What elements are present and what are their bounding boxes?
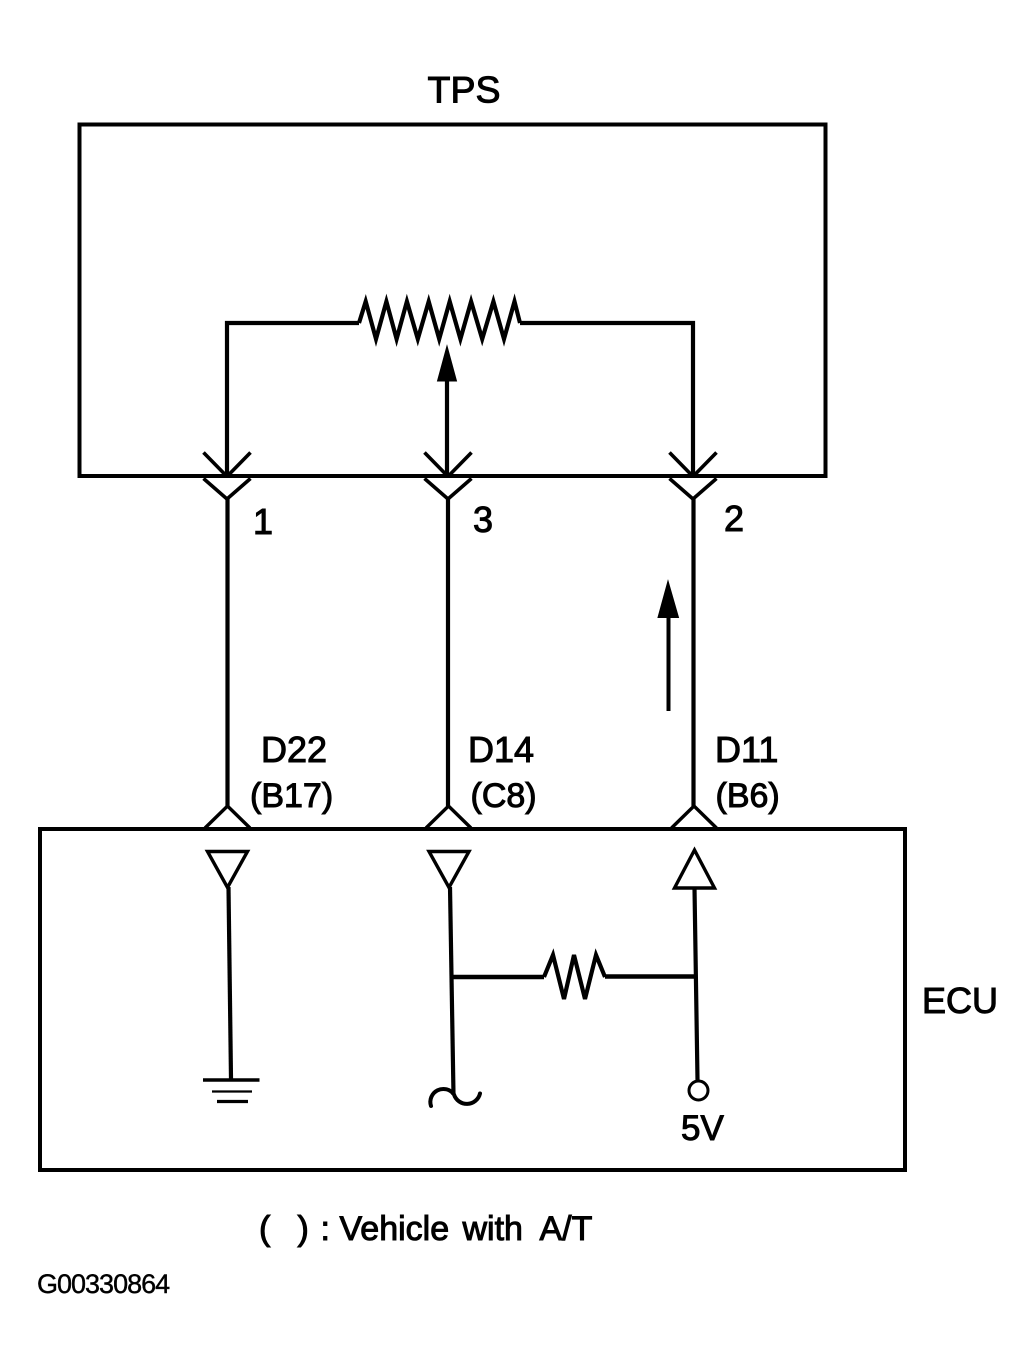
wire: pin 1 to ECU terminal D22 bbox=[225, 499, 229, 806]
connector terminal D22 at ECU bbox=[205, 806, 250, 888]
wire: D14 signal into ECU bbox=[450, 887, 454, 1095]
svg-text:2: 2 bbox=[724, 498, 744, 539]
resistor R2 (ECU pull-up) bbox=[544, 955, 605, 999]
wire: pot right leg bbox=[520, 323, 693, 475]
wire: branch from D14 node to pull-up resistor bbox=[452, 975, 544, 979]
svg-text:G00330864: G00330864 bbox=[37, 1269, 170, 1299]
5V supply terminal bbox=[689, 1081, 708, 1100]
svg-text:5V: 5V bbox=[681, 1109, 724, 1148]
svg-text:D14: D14 bbox=[468, 729, 534, 770]
connector pin 1 (TPS outlet) bbox=[204, 453, 251, 500]
TPS sensor box bbox=[80, 125, 826, 477]
wire: pin 2 to ECU terminal D11 bbox=[691, 499, 695, 806]
svg-text:D11: D11 bbox=[715, 729, 778, 770]
svg-text:3: 3 bbox=[473, 499, 493, 540]
current direction arrow on 5V feed wire bbox=[658, 581, 679, 711]
wiper arrow (TPS slider) bbox=[438, 346, 457, 475]
connector terminal D14 at ECU bbox=[426, 806, 471, 888]
connector pin 3 (TPS outlet) bbox=[425, 453, 472, 500]
ECU box bbox=[40, 829, 905, 1170]
wire: pull-up resistor to 5V line bbox=[605, 974, 696, 978]
connector terminal D11 at ECU bbox=[672, 806, 717, 888]
signal continuation squiggle bbox=[430, 1089, 480, 1106]
ground symbol bbox=[203, 1080, 260, 1102]
connector pin 2 (TPS outlet) bbox=[670, 453, 717, 500]
svg-text:D22: D22 bbox=[261, 729, 327, 770]
svg-text:(B17): (B17) bbox=[250, 777, 333, 815]
svg-text:ECU: ECU bbox=[922, 980, 998, 1021]
svg-text:TPS: TPS bbox=[428, 69, 501, 111]
svg-text:(B6): (B6) bbox=[716, 777, 780, 815]
potentiometer R1 (TPS resistance track) bbox=[359, 302, 520, 340]
wire: 5V source up to terminal D11 bbox=[695, 888, 698, 1080]
svg-text:1: 1 bbox=[253, 501, 273, 542]
wire: D22 to ground bbox=[229, 887, 232, 1079]
wire: pin 3 to ECU terminal D14 bbox=[446, 499, 450, 806]
wire: pot left leg bbox=[227, 323, 359, 475]
svg-text:(C8): (C8) bbox=[471, 777, 537, 815]
